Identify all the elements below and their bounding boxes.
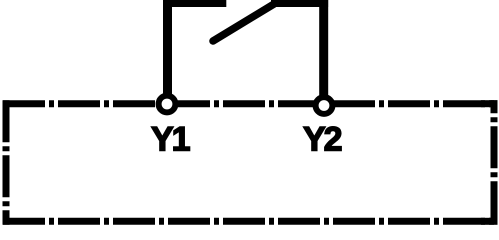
switch S1 blade (open contact)	[213, 4, 274, 41]
enclosure top edge (dash-dot boundary)	[3, 100, 497, 107]
svg-text:Y1: Y1	[151, 121, 190, 159]
enclosure bottom edge (dash-dot boundary)	[3, 218, 497, 225]
wire: Y1 vertical riser	[163, 0, 172, 98]
svg-text:Y2: Y2	[303, 121, 342, 159]
enclosure bottom-right corner dash patch	[481, 218, 498, 225]
enclosure top-right corner dash patch	[481, 100, 498, 107]
wire: top-right horizontal	[271, 0, 328, 7]
terminal Y2 (node circle)	[316, 97, 333, 114]
wire: top-left horizontal to fixed contact	[163, 0, 226, 7]
enclosure left edge (dash-dot boundary)	[3, 100, 10, 225]
wire: Y2 vertical riser	[319, 0, 328, 99]
terminal Y1 (node circle)	[159, 96, 176, 113]
enclosure right edge (dash-dot boundary)	[491, 100, 498, 225]
